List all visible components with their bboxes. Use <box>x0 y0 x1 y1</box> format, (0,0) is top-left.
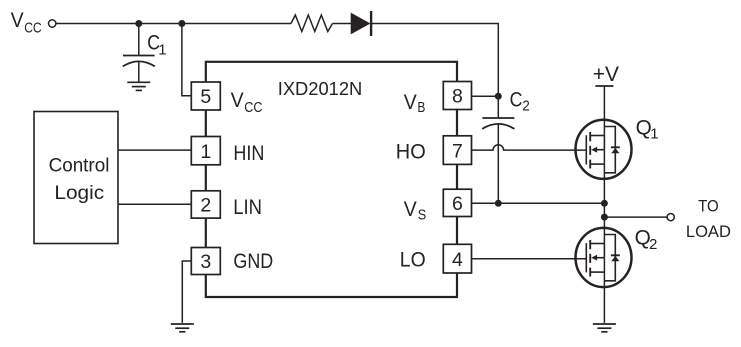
svg-text:TO: TO <box>698 196 719 215</box>
svg-text:HIN: HIN <box>233 142 264 165</box>
svg-text:V: V <box>404 91 417 114</box>
svg-text:2: 2 <box>649 236 657 253</box>
svg-text:Control: Control <box>49 155 110 177</box>
svg-text:4: 4 <box>452 249 463 271</box>
svg-text:1: 1 <box>200 141 211 163</box>
svg-text:CC: CC <box>24 20 42 37</box>
svg-text:8: 8 <box>452 86 463 108</box>
svg-text:LIN: LIN <box>233 196 262 219</box>
svg-text:GND: GND <box>233 250 273 273</box>
svg-text:V: V <box>11 9 24 32</box>
svg-text:+V: +V <box>593 63 619 86</box>
svg-text:HO: HO <box>396 140 426 163</box>
svg-text:2: 2 <box>200 195 211 217</box>
svg-text:5: 5 <box>200 86 211 108</box>
svg-text:1: 1 <box>158 42 166 59</box>
svg-text:7: 7 <box>452 140 463 162</box>
svg-text:IXD2012N: IXD2012N <box>278 78 363 99</box>
svg-text:CC: CC <box>244 99 262 116</box>
svg-text:6: 6 <box>452 193 463 215</box>
svg-text:2: 2 <box>522 98 529 115</box>
svg-text:S: S <box>418 207 427 224</box>
svg-text:V: V <box>231 89 244 112</box>
svg-text:Logic: Logic <box>54 182 104 204</box>
svg-text:C: C <box>510 89 523 112</box>
svg-text:1: 1 <box>650 125 658 142</box>
svg-text:LOAD: LOAD <box>686 222 731 241</box>
svg-text:LO: LO <box>400 248 426 271</box>
svg-text:B: B <box>417 99 425 116</box>
svg-text:V: V <box>404 198 417 221</box>
svg-text:3: 3 <box>200 251 211 273</box>
